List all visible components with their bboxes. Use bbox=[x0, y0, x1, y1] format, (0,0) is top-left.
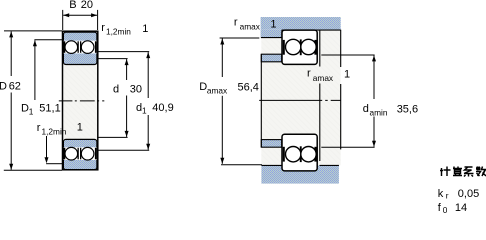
housing left shoulder (blue) bbox=[261, 30, 282, 38]
upper ring section (blue) bbox=[63, 32, 97, 64]
svg-text:1: 1 bbox=[29, 106, 34, 116]
svg-text:1: 1 bbox=[344, 69, 350, 81]
svg-text:r: r bbox=[101, 22, 105, 34]
upper row right shoulder bar bbox=[95, 41, 97, 53]
lower ball row band bbox=[64, 147, 97, 160]
svg-text:56,4: 56,4 bbox=[238, 81, 259, 93]
svg-text:amax: amax bbox=[240, 22, 261, 32]
dimension D 62 bbox=[4, 30, 62, 32]
shaft right end face bbox=[340, 30, 342, 67]
svg-text:r: r bbox=[446, 191, 449, 201]
bearing lower box bbox=[282, 134, 317, 171]
upper ball 2 bbox=[81, 41, 94, 54]
svg-text:62: 62 bbox=[9, 81, 21, 93]
svg-text:amax: amax bbox=[207, 86, 228, 96]
housing bottom shoulder edges bbox=[261, 164, 282, 166]
lower ball 2 bbox=[81, 147, 94, 160]
lower row left shoulder bar bbox=[63, 148, 65, 160]
svg-text:14: 14 bbox=[455, 202, 467, 214]
char 系 bbox=[464, 167, 474, 177]
svg-text:35,6: 35,6 bbox=[397, 103, 418, 115]
svg-text:amax: amax bbox=[313, 73, 334, 83]
centre axis (dash-dot) right view bbox=[259, 99, 341, 101]
dimension D amax 56,4 bbox=[220, 37, 260, 39]
lower ball 2 bbox=[301, 147, 316, 162]
svg-text:d: d bbox=[113, 83, 119, 95]
dimension D1 51,1 bbox=[34, 39, 62, 41]
housing top bore edge bbox=[282, 29, 341, 31]
svg-text:d: d bbox=[363, 103, 369, 115]
svg-text:1,2min: 1,2min bbox=[106, 26, 131, 36]
shaft body (grey) bbox=[261, 30, 340, 165]
bearing outline rect bbox=[63, 31, 98, 170]
lower box left bar bbox=[283, 147, 285, 162]
dimension B 20 bbox=[62, 10, 64, 30]
svg-text:amin: amin bbox=[370, 107, 388, 117]
upper box left bar bbox=[283, 40, 285, 55]
upper row center bars bbox=[78, 41, 79, 53]
upper ball 1 bbox=[65, 41, 78, 54]
svg-text:1: 1 bbox=[270, 18, 276, 30]
svg-text:1,2min: 1,2min bbox=[42, 126, 67, 136]
spacer strip bottom edge / d_a bottom level line bbox=[321, 146, 374, 148]
svg-text:r: r bbox=[37, 122, 41, 134]
shaft shoulder piece lower (blue) bbox=[261, 140, 281, 148]
centre axis (dash-dot) left view bbox=[59, 100, 105, 102]
shaft left end face bbox=[260, 54, 262, 147]
upper ball 2 bbox=[301, 39, 316, 54]
svg-text:40,9: 40,9 bbox=[152, 102, 173, 114]
spacer left face line bbox=[319, 31, 321, 67]
lower row right shoulder bar bbox=[95, 148, 97, 160]
bore (grey middle region) bbox=[63, 64, 97, 141]
upper row left shoulder bar bbox=[63, 41, 65, 53]
svg-text:r: r bbox=[307, 67, 311, 79]
svg-text:51,1: 51,1 bbox=[39, 103, 60, 115]
lower box center bars bbox=[300, 146, 302, 151]
char 数 bbox=[476, 167, 486, 177]
dimension d 30 bbox=[98, 58, 127, 60]
heading 计算系数 (hand-drawn strokes) bbox=[440, 167, 486, 177]
bearing upper box bbox=[282, 30, 317, 64]
char 计 bbox=[440, 167, 451, 177]
spacer strip top edge / d_a top level line bbox=[321, 54, 374, 56]
lower ring section (blue) bbox=[63, 139, 97, 169]
upper box center bars bbox=[300, 39, 302, 44]
shaft shoulder piece upper (blue) bbox=[261, 54, 281, 62]
svg-text:0,05: 0,05 bbox=[458, 188, 479, 200]
dimension d1 40,9 bbox=[98, 51, 149, 53]
svg-text:r: r bbox=[234, 17, 238, 29]
svg-text:1: 1 bbox=[142, 23, 148, 35]
housing band top (blue) bbox=[261, 17, 341, 30]
lower box right bar bbox=[314, 147, 316, 162]
housing left shoulder edge bbox=[261, 30, 282, 38]
upper ball 1 bbox=[286, 39, 301, 54]
upper ball row band bbox=[64, 41, 97, 54]
lower ball 1 bbox=[286, 147, 301, 162]
lower row center bars bbox=[78, 148, 79, 160]
svg-text:1: 1 bbox=[142, 106, 147, 116]
svg-text:20: 20 bbox=[81, 0, 93, 11]
upper box right bar bbox=[314, 40, 316, 55]
housing band bottom (blue) bbox=[261, 165, 339, 183]
svg-text:D: D bbox=[0, 81, 7, 93]
char 算 bbox=[453, 167, 462, 176]
svg-text:k: k bbox=[438, 188, 444, 200]
lower ball 1 bbox=[65, 147, 78, 160]
svg-text:B: B bbox=[69, 0, 76, 11]
svg-text:30: 30 bbox=[130, 83, 142, 95]
svg-text:0: 0 bbox=[443, 205, 448, 215]
dimension d amin 35,6 bbox=[373, 55, 375, 99]
svg-text:1: 1 bbox=[77, 122, 83, 134]
